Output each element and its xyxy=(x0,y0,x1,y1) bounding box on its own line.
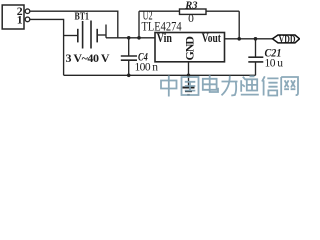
svg-text:Vout: Vout xyxy=(202,32,221,46)
watermark char 中 xyxy=(161,76,177,97)
battery BT1 right long plate xyxy=(90,21,92,49)
svg-text:R3: R3 xyxy=(184,1,197,12)
watermark char 通 xyxy=(241,76,259,94)
watermark char 信 xyxy=(262,76,279,95)
connector pin 1 circle xyxy=(25,17,30,22)
watermark char 网 xyxy=(281,77,298,95)
resistor R3 body xyxy=(180,9,207,14)
svg-text:3 V~40 V: 3 V~40 V xyxy=(66,51,110,65)
wire: Vout net horizontal xyxy=(225,38,273,40)
wire: R3 top horizontal left stub xyxy=(139,10,180,12)
ground symbol bar 2 xyxy=(185,90,192,92)
watermark 中国电力通信网 (hand-drawn strokes) xyxy=(161,75,298,96)
capacitor C21 top wire xyxy=(255,39,257,57)
wire: R3 right drop xyxy=(238,11,240,39)
node: C4 tap on Vin net xyxy=(127,36,131,40)
battery BT1 right short plate xyxy=(96,29,98,43)
connector J1 box xyxy=(2,5,24,29)
wire: pin2 top rail to regulator input drop xyxy=(30,11,118,38)
VDD power flag xyxy=(273,35,300,43)
svg-text:0: 0 xyxy=(188,13,194,25)
wire: Vin net horizontal xyxy=(106,37,155,39)
node: C4 joins ground rail xyxy=(127,74,131,78)
battery BT1 right lead wire xyxy=(97,34,106,36)
ground symbol stem xyxy=(188,75,190,87)
svg-text:GND: GND xyxy=(183,36,197,61)
node: C21 tap on Vout net xyxy=(254,37,258,41)
capacitor C4 top plate xyxy=(121,55,137,57)
capacitor C21 top plate xyxy=(248,56,263,58)
battery BT1 left long plate xyxy=(82,21,84,49)
capacitor C21 bottom plate xyxy=(248,61,263,63)
capacitor C4 top wire xyxy=(128,38,130,56)
watermark char 力 xyxy=(222,76,238,96)
svg-text:100 n: 100 n xyxy=(135,62,159,74)
wire: pin1 to ground rail xyxy=(30,19,64,75)
svg-text:Vin: Vin xyxy=(157,31,173,46)
node: R3 drop joins Vout net xyxy=(237,37,241,41)
svg-text:1: 1 xyxy=(17,13,23,27)
capacitor C4 bottom wire xyxy=(128,60,130,75)
wire: battery riser to Vin net xyxy=(105,25,107,38)
watermark char 电 xyxy=(203,75,218,92)
op regulator U2 box xyxy=(155,33,225,62)
wire: U2 GND pin drop xyxy=(188,62,190,76)
wire: R3 left riser xyxy=(138,11,140,38)
capacitor C21 bottom wire xyxy=(255,62,257,75)
battery BT1 left short plate xyxy=(77,29,79,43)
wire: R3 top horizontal right stub xyxy=(206,10,239,12)
node: GND pin joins ground rail xyxy=(187,74,191,78)
svg-text:10 u: 10 u xyxy=(265,58,284,70)
node: R3 tap on Vin net xyxy=(137,36,141,40)
ground symbol bar 3 xyxy=(187,94,190,96)
connector pin 2 circle xyxy=(25,9,30,14)
battery BT1 left lead wire xyxy=(64,35,78,37)
watermark char 国 xyxy=(182,77,199,95)
svg-text:VDD: VDD xyxy=(279,34,296,46)
capacitor C4 bottom plate xyxy=(121,59,137,61)
ground symbol bar 1 xyxy=(183,87,195,89)
wire: ground rail xyxy=(64,74,256,76)
